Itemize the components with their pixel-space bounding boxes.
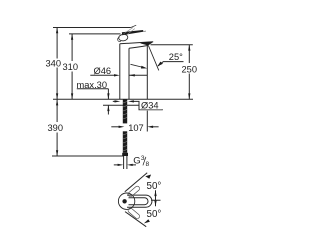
arrow top view vertical down (154, 201, 156, 207)
25 deg leader (left) (131, 64, 144, 67)
arrow 340 top up (56, 28, 58, 34)
max.30 underline (77, 88, 109, 90)
knob small left arc (118, 37, 121, 41)
lower 50deg swivel line (125, 212, 146, 227)
upper 50deg swivel line (125, 173, 147, 192)
raised handle ghost (124, 27, 135, 35)
aerator axis vertical line (146, 46, 148, 132)
svg-text:Ø46: Ø46 (94, 66, 112, 76)
base circle (118, 193, 134, 209)
braid highlights (123, 102, 127, 152)
svg-text:390: 390 (48, 123, 64, 133)
lever tip thin line (143, 30, 146, 32)
spout plan outer stadium (127, 195, 152, 207)
25 deg leader (right) (158, 62, 184, 66)
svg-text:max.30: max.30 (77, 80, 108, 90)
Ø34 arrows tails (113, 101, 163, 109)
hose end extension line (52, 155, 124, 157)
hose nut (122, 153, 128, 156)
arrow 390 top up (56, 100, 58, 106)
handle lever (filled) (122, 30, 143, 35)
spout top line (120, 42, 149, 44)
arrow Ø34 right-pointing (115, 100, 121, 102)
svg-text:107: 107 (128, 123, 144, 133)
handle oval lower (127, 207, 140, 219)
svg-text:250: 250 (182, 64, 198, 74)
arrow max30 up (107, 105, 109, 111)
arrow 390 bottom down (56, 150, 58, 156)
arrow 340 bottom down (56, 93, 58, 99)
107 dim line left (111, 126, 121, 128)
spout tip top edge extension (149, 41, 153, 43)
arrow Ø46 right-pointing (114, 74, 120, 76)
arrowheads (56, 28, 191, 224)
counter underside line (103, 104, 140, 106)
arrow G38 left-pointing (127, 164, 133, 166)
spout underside (129, 45, 148, 48)
svg-text:25°: 25° (169, 52, 183, 62)
svg-text:Ø34: Ø34 (141, 101, 159, 111)
arrow G38 right-pointing (118, 164, 124, 166)
extension line 250 top (spout tip level) (151, 44, 193, 46)
arrow Ø34 left-pointing (128, 100, 134, 102)
Ø46 right arrow tail (129, 74, 147, 76)
faucet column body (120, 44, 129, 99)
arrow 25deg right leader (157, 62, 163, 67)
Ø46 leader left arrow line (90, 74, 116, 76)
arrow 250 bottom down (188, 93, 190, 99)
countertop line (53, 98, 193, 100)
connection tube (124, 156, 127, 169)
arrow top view vertical up (154, 190, 156, 196)
label Ø34 with white backing (140, 100, 162, 109)
dim line 340/390 vertical x=57 (56, 28, 58, 157)
vertical reference line with tick (151, 190, 161, 206)
svg-text:50°: 50° (147, 181, 162, 192)
arrow 107 left-pointing (147, 126, 153, 128)
svg-text:G: G (133, 156, 140, 167)
arrow 50 lower leader (points down-left) (144, 219, 150, 223)
spout plan inner stadium (129, 198, 149, 205)
arrow 250 top up (188, 45, 190, 51)
arrow 310 bottom down (71, 93, 73, 99)
svg-text:310: 310 (63, 62, 79, 72)
raised handle tip tick (131, 25, 136, 27)
extension line 310 (69, 33, 121, 35)
svg-text:50°: 50° (147, 209, 162, 220)
handle oval upper (rotated 50) (127, 185, 140, 197)
extension line 340 (top) (53, 27, 131, 29)
max.30 vertical leader (107, 89, 109, 115)
arrow 25deg left leader (141, 66, 147, 69)
threaded shank / braided hose (123, 99, 127, 123)
dim line 310 vertical x=72 (71, 34, 73, 99)
arrow Ø46 left-pointing (129, 74, 135, 76)
dim line 250 vertical x=189 (188, 45, 190, 99)
25 deg angled line from tip (148, 46, 158, 71)
svg-text:340: 340 (46, 58, 62, 68)
arrow max30 down (107, 93, 109, 99)
107 dim line right tail (151, 126, 159, 128)
cartridge dot (122, 199, 126, 203)
svg-text:8: 8 (146, 161, 150, 168)
arrow 310 top up (71, 34, 73, 40)
handle knob (118, 34, 128, 42)
G3/8 arrow tails (114, 164, 136, 166)
arrow 50 upper leader (points up-left) (145, 175, 151, 179)
spout tip wedge (141, 42, 153, 46)
arrow 107 right-pointing (119, 126, 125, 128)
